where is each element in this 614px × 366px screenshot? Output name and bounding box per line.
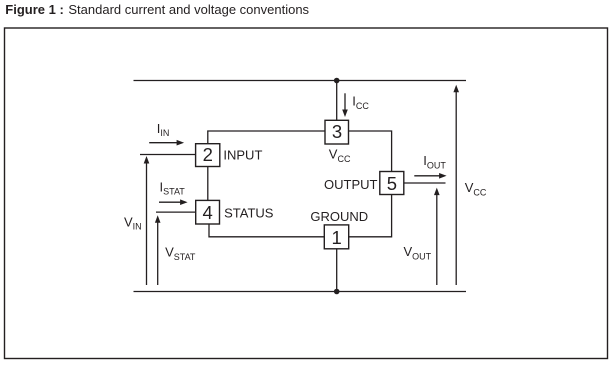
svg-text:VIN: VIN: [124, 214, 142, 231]
svg-text:5: 5: [387, 173, 397, 194]
ground bottom rail: [134, 291, 467, 293]
wire: status lead to pin 4: [156, 211, 196, 213]
voltage arrow VCC right: [455, 91, 457, 285]
wire: input lead to pin 2: [140, 154, 196, 156]
wire: VCC rail junction to pin 3 top: [336, 81, 338, 121]
pin 3 box: [325, 120, 349, 144]
svg-text:Figure 1 :: Figure 1 :: [5, 2, 64, 17]
svg-text:OUTPUT: OUTPUT: [324, 177, 378, 192]
wire: pin 2 bottom to pin 4 top: [207, 167, 209, 201]
svg-text:Standard current and voltage c: Standard current and voltage conventions: [68, 2, 309, 17]
current arrow ICC: [344, 93, 346, 110]
svg-text:INPUT: INPUT: [223, 148, 262, 163]
wire: pin 2 top to pin 3 left: [208, 131, 325, 144]
junction dot (VCC rail / pin 3): [334, 78, 340, 84]
wire: pin 4 bottom to pin 1 left: [209, 224, 324, 237]
wire: pin 5 right output lead: [404, 182, 446, 184]
svg-text:VOUT: VOUT: [404, 244, 432, 261]
current arrow IOUT: [414, 175, 440, 177]
svg-text:VSTAT: VSTAT: [165, 245, 196, 262]
svg-text:4: 4: [202, 202, 212, 223]
svg-text:ISTAT: ISTAT: [160, 179, 186, 196]
svg-text:VCC: VCC: [465, 180, 487, 197]
figure title: [5, 2, 309, 17]
pin 5 box: [380, 172, 404, 195]
current arrow IIN: [149, 142, 177, 144]
current arrow ISTAT: [159, 201, 181, 203]
svg-text:STATUS: STATUS: [224, 206, 274, 221]
wire: pin 5 bottom to pin 1 right: [349, 195, 392, 237]
junction dot (ground rail / pin 1): [334, 289, 340, 295]
wire: pin 1 bottom to ground rail: [336, 249, 338, 292]
svg-text:1: 1: [331, 227, 341, 248]
voltage arrow VOUT: [436, 194, 438, 285]
voltage arrow VIN: [146, 163, 148, 286]
svg-text:IOUT: IOUT: [423, 153, 446, 170]
VCC top rail: [134, 80, 467, 82]
pin 1 box: [324, 225, 348, 249]
wire: pin 3 right to pin 5 top: [349, 131, 392, 172]
voltage arrow VSTAT: [157, 222, 159, 286]
pin 2 box: [196, 144, 220, 167]
svg-text:IIN: IIN: [157, 121, 170, 138]
svg-text:3: 3: [332, 121, 342, 142]
svg-text:GROUND: GROUND: [310, 209, 368, 224]
pin 4 box: [196, 200, 220, 224]
svg-text:VCC: VCC: [329, 147, 351, 164]
svg-text:2: 2: [203, 144, 213, 165]
svg-text:ICC: ICC: [352, 94, 369, 111]
